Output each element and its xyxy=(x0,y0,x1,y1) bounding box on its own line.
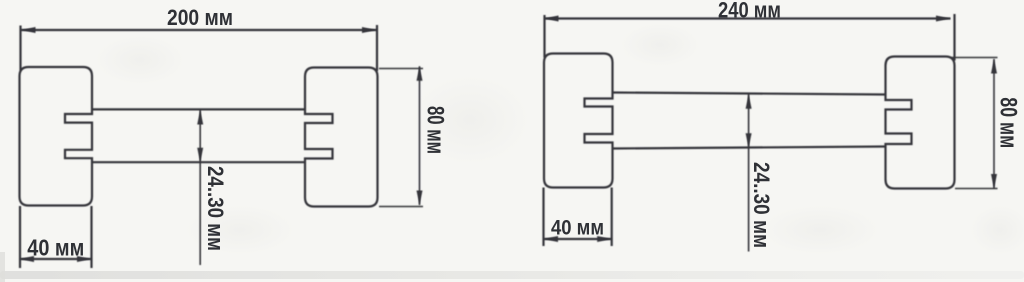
dim 240mm: right extension line xyxy=(953,14,955,61)
dim 240mm: dimension line xyxy=(544,17,951,19)
arrowhead 24..30mm fig1 down xyxy=(197,148,203,163)
arrowhead 240mm left xyxy=(544,16,559,22)
arrowhead 40mm fig1 right xyxy=(77,256,92,262)
arrowhead 80mm fig1 bottom xyxy=(417,191,423,206)
dim 80mm fig1: top extension line xyxy=(379,68,423,70)
arrowhead 40mm fig2 right xyxy=(597,236,612,242)
dim 80mm fig2: top extension line xyxy=(950,57,998,59)
handle bar top edge fig2 xyxy=(613,93,886,95)
dim 40mm fig1: dimension line xyxy=(20,258,92,260)
dim 200mm: dimension line xyxy=(21,29,377,31)
svg-text:24..30 мм: 24..30 мм xyxy=(203,166,228,251)
dim 40mm fig2: dimension line xyxy=(544,238,612,240)
arrowhead 24..30mm fig1 up xyxy=(197,110,203,125)
paper mottling xyxy=(410,75,530,165)
arrowhead 40mm fig1 left xyxy=(20,256,35,262)
dim 200mm: left extension line xyxy=(19,26,21,71)
arrowhead 240mm right xyxy=(936,16,951,22)
dim 80mm fig1: dimension line xyxy=(419,66,421,205)
dim 80mm fig1: bottom extension line xyxy=(379,206,423,208)
arrowhead 80mm fig1 top xyxy=(417,66,423,81)
right pad fig2 xyxy=(886,57,955,189)
svg-text:80 мм: 80 мм xyxy=(422,106,449,154)
arrowhead 24..30mm fig2 up xyxy=(746,94,752,109)
svg-text:80 мм: 80 мм xyxy=(995,97,1022,148)
arrowhead 80mm fig2 top xyxy=(991,59,997,74)
arrowhead 24..30mm fig2 down xyxy=(746,133,752,148)
svg-text:40 мм: 40 мм xyxy=(551,216,604,240)
dim 24..30mm fig2: vertical dimension line xyxy=(748,94,750,251)
dim 40mm fig2: right extension line xyxy=(611,188,613,247)
dim 40mm fig1: left extension line xyxy=(19,206,21,268)
arrowhead 200mm left xyxy=(21,27,36,33)
svg-text:200 мм: 200 мм xyxy=(167,5,233,30)
svg-text:40 мм: 40 мм xyxy=(27,235,84,261)
left pad (rounded block with two slots on right edge) xyxy=(20,67,93,206)
dim 80mm fig2: bottom extension line xyxy=(955,188,998,190)
handle bar top edge xyxy=(92,108,305,110)
dim 24..30mm fig1: vertical dimension line xyxy=(199,110,201,265)
scan shading bottom band xyxy=(0,271,1024,279)
scan smudge left bottom corner xyxy=(0,252,5,282)
svg-text:24..30 мм: 24..30 мм xyxy=(749,162,774,248)
handle bar bottom edge xyxy=(92,161,305,163)
dim 200mm: right extension line xyxy=(376,25,378,71)
svg-text:240 мм: 240 мм xyxy=(718,0,781,23)
dim 40mm fig2: left extension line xyxy=(542,188,544,247)
arrowhead 80mm fig2 bottom xyxy=(991,174,997,189)
arrowhead 200mm right xyxy=(362,27,377,33)
arrowhead 40mm fig2 left xyxy=(544,236,559,242)
dim 80mm fig2: dimension line xyxy=(993,59,995,189)
dim 40mm fig1: right extension line xyxy=(90,206,92,268)
right pad (rounded block with two slots on left edge) xyxy=(305,68,378,207)
handle bar bottom edge fig2 xyxy=(613,147,886,149)
dim 240mm: left extension line xyxy=(543,15,545,58)
left pad fig2 xyxy=(544,54,613,188)
